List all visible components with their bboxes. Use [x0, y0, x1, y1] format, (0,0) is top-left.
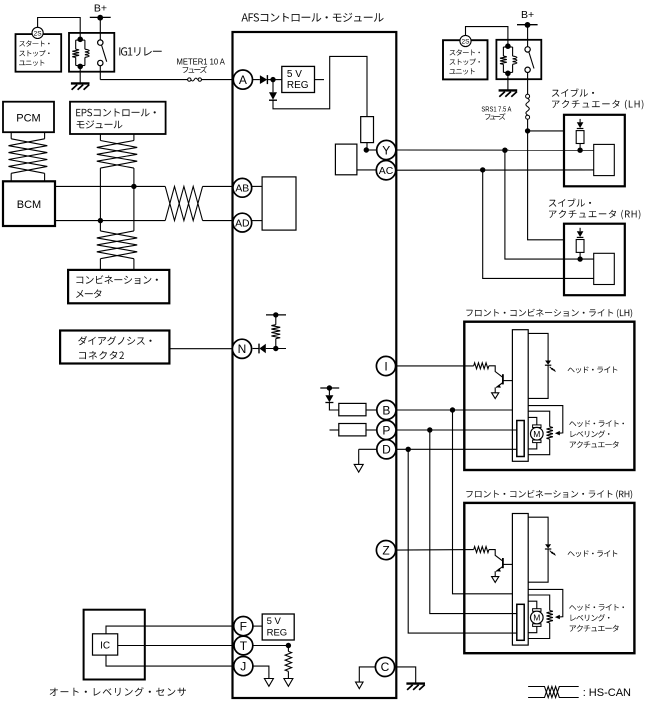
svg-text:2S: 2S [462, 38, 471, 45]
resistor in swivel (LH) [576, 131, 584, 144]
power tick at N pull-up [273, 312, 278, 317]
twisted pair PCM-BCM [10, 132, 12, 139]
diode at N [253, 348, 259, 350]
wire diode to B resistor [329, 403, 338, 411]
label start-stop unit (left) [19, 40, 49, 46]
label auto leveling sensor [50, 687, 186, 696]
connector 2S (left) [32, 27, 43, 38]
start-stop unit (left) box [16, 34, 62, 72]
wire AC to swivel LH [396, 169, 594, 171]
wire motor top to strip (RH) [528, 601, 537, 609]
relay IG1 coil [76, 39, 85, 41]
AFS control module U1 box [233, 32, 397, 698]
wire sensor to J [106, 655, 236, 666]
wire P resistor to P [366, 429, 377, 431]
wire EPS pair vertical left [99, 168, 101, 231]
wire zener loop to resistor [273, 56, 367, 116]
terminal J [234, 657, 253, 676]
wire sensor to F [106, 626, 236, 634]
relay 2 switch blade [529, 52, 534, 69]
svg-text:SRS1 7.5 A: SRS1 7.5 A [481, 107, 511, 114]
zener diode down from node [272, 82, 274, 92]
relay 2 contact upper [525, 47, 530, 52]
svg-text:F: F [240, 619, 247, 633]
wire resistor top to strip (RH) [528, 595, 550, 611]
junction node at Y [364, 147, 369, 152]
wire sensor to T [118, 645, 236, 647]
BCM box [3, 181, 55, 226]
junction node at T [286, 643, 291, 648]
label front combination light (LH) [466, 309, 632, 318]
PCM box [3, 102, 54, 133]
label headlight leveling actuator (LH) [569, 420, 624, 427]
wire F to 5V REG [253, 625, 262, 627]
wire D to LH light [396, 448, 517, 450]
base resistor (RH) [474, 547, 489, 553]
headlight connector strip (LH) [512, 330, 528, 462]
relay IG1 contact lower [98, 60, 103, 65]
relay 2 coil node top [505, 43, 511, 49]
internal box near Y [335, 144, 357, 175]
diode after A [260, 75, 267, 84]
wiper arm wire (LH) [528, 406, 563, 434]
junction node on B wire [450, 407, 455, 412]
wire P branch to RH light [430, 430, 517, 614]
label swivel actuator LH [552, 88, 594, 96]
terminal P [377, 420, 396, 439]
terminal B [377, 400, 396, 419]
wire base resistor to transistor (RH) [489, 550, 503, 562]
wire D branch to RH light [408, 449, 517, 633]
wire P to LH light [396, 429, 517, 431]
label combination meter [76, 275, 157, 284]
wire BCM to AD (CAN low) [55, 220, 165, 222]
terminal AB [233, 178, 252, 197]
junction node in swivel (RH) [577, 256, 582, 261]
transistor emitter (LH) [496, 383, 503, 388]
label headlight leveling actuator (RH) [569, 604, 624, 611]
ground triangle at emitter (LH) [492, 393, 499, 399]
swivel actuator (RH) box [564, 224, 625, 296]
resistor at B (box) [339, 403, 366, 415]
transistor Q (LH) [502, 374, 504, 384]
wire B+ branch to swivel RH [528, 131, 564, 240]
junction node on P wire [427, 427, 432, 432]
ground triangle at J [264, 679, 273, 687]
label swivel actuator RH [549, 198, 591, 206]
svg-text:IC: IC [100, 641, 110, 652]
label start-stop unit (right) [450, 49, 480, 55]
wire T internal [253, 645, 289, 647]
wire B+ to swivel LH [528, 130, 564, 132]
front combination light (RH) box [464, 503, 634, 653]
junction node on Y wire [502, 148, 507, 153]
relay IG1 contact upper [98, 40, 103, 45]
wire C to ground left [359, 667, 376, 682]
diode in swivel (RH) [579, 228, 581, 231]
junction node after diode [270, 77, 275, 82]
svg-text:AD: AD [235, 218, 249, 229]
wire A to diode [252, 79, 260, 81]
headlight connector strip (RH) [512, 514, 528, 646]
terminal D [377, 440, 396, 459]
wire internal box to AC [357, 169, 377, 171]
connector 2S (right) [460, 35, 471, 46]
wire AD to internal box [252, 220, 262, 222]
chassis ground at C [406, 682, 425, 684]
wire fuse SRS1 to node [527, 119, 529, 131]
wire resistor top to strip (LH) [528, 411, 550, 427]
relay IG1 switch blade [102, 45, 107, 62]
svg-text:D: D [382, 443, 391, 457]
wire 2S to relay coil [38, 18, 81, 40]
junction node on AC wire [480, 167, 485, 172]
diagnosis connector 2 box [60, 331, 169, 364]
wire resistor bottom to strip (LH) [528, 439, 550, 455]
svg-text:I: I [384, 359, 387, 373]
label AFS control module [241, 13, 383, 22]
headlight lamp circuit (RH) [528, 517, 548, 544]
wire relay 2 to fuse SRS1 [527, 72, 529, 94]
label headlight (RH) [568, 550, 618, 557]
relay IG1 coil node top [77, 37, 83, 43]
EPS control module box [70, 102, 166, 134]
wire AC branch to swivel RH [483, 170, 594, 279]
wire Z to RH base resistor [396, 549, 474, 552]
ground triangle at T [284, 679, 293, 687]
power tick at B [320, 387, 339, 389]
svg-text:METER1 10 A: METER1 10 A [177, 58, 226, 67]
relay 2 contact lower [525, 67, 530, 72]
relay 2 box [496, 40, 541, 79]
wire B resistor to B [366, 409, 377, 411]
fuse METER1 10A [188, 78, 191, 81]
wire B+ to relay 2 contact [527, 25, 529, 47]
label headlight (LH) [568, 366, 618, 373]
wire B to LH light [396, 409, 512, 411]
svg-text:Z: Z [382, 543, 389, 557]
junction node below SRS1 fuse [525, 128, 530, 133]
fuse SRS1 7.5A [526, 94, 530, 98]
ground below relay 2 [507, 74, 509, 91]
ground triangle at D [354, 464, 363, 472]
label diagnosis connector 2 [78, 336, 152, 345]
junction node on D wire [406, 447, 411, 452]
wire EPS pair vertical right [133, 168, 135, 231]
svg-text:5 V: 5 V [287, 69, 302, 80]
terminal AD [233, 213, 252, 232]
ground below relay IG1 [79, 67, 81, 83]
twisted pair to combination meter [97, 231, 137, 259]
wire C to chassis ground [395, 667, 416, 684]
wire motor top to strip (LH) [528, 417, 537, 425]
wire B branch to RH light [453, 410, 513, 594]
resistor at P (box) [339, 424, 366, 436]
svg-text:M: M [533, 613, 540, 623]
wire diagnosis connector to N [169, 348, 234, 350]
internal box at AB-AD [262, 177, 296, 230]
motor box in swivel (RH) [594, 253, 615, 284]
svg-text:B+: B+ [94, 3, 107, 15]
terminal N [232, 339, 251, 358]
terminal I [376, 356, 395, 375]
svg-text:5 V: 5 V [267, 616, 282, 627]
motor box in swivel (LH) [594, 144, 615, 175]
wire B+ to relay contact [99, 18, 101, 40]
wire base resistor to transistor (LH) [489, 366, 503, 378]
5V regulator box (bottom) [262, 614, 294, 640]
IC box [93, 634, 118, 655]
svg-text:Y: Y [382, 143, 390, 157]
terminal C [375, 657, 394, 676]
wire Y to swivel LH [396, 149, 594, 151]
wire D to ground [359, 448, 377, 450]
terminal T [234, 636, 253, 655]
wire motor bottom to strip (RH) [528, 626, 537, 632]
wiper arm wire (RH) [528, 589, 563, 617]
svg-text:2S: 2S [34, 30, 43, 37]
junction node on AD wire [98, 218, 103, 223]
headlight leveling connector (LH) [517, 421, 524, 457]
auto leveling sensor box [84, 610, 145, 680]
ground triangle at emitter (RH) [492, 577, 499, 583]
resistor at T [287, 646, 289, 652]
transistor emitter (RH) [496, 566, 503, 571]
headlight leveling connector (RH) [517, 604, 524, 640]
wire R1 to Y [366, 143, 368, 150]
svg-text:J: J [240, 659, 246, 673]
relay IG1 box [69, 33, 114, 72]
wire fuse to terminal A [202, 79, 235, 81]
leveling feedback resistor (RH) [547, 611, 553, 623]
5V regulator box (top) [282, 66, 315, 92]
terminal Y [377, 140, 396, 159]
svg-text:B+: B+ [521, 9, 534, 21]
label IG1 relay [119, 47, 161, 56]
wire Y branch to swivel RH [505, 150, 594, 259]
ground triangle at C [356, 682, 364, 689]
terminal F [234, 617, 253, 636]
wire I to LH base resistor [396, 365, 474, 367]
svg-text:REG: REG [267, 627, 288, 638]
pull-up resistor at N [275, 339, 277, 349]
transistor Q (RH) [502, 558, 504, 568]
headlight lamp circuit (LH) [528, 333, 548, 360]
twisted pair EPS down [99, 134, 101, 141]
wire resistor to node (LH) [579, 144, 581, 151]
wire 5V REG output stub [315, 79, 325, 81]
diode in swivel (LH) [579, 119, 581, 122]
resistor in swivel (RH) [576, 240, 584, 253]
svg-text:: HS-CAN: : HS-CAN [583, 687, 631, 699]
combination meter box [68, 270, 169, 303]
twisted pair BCM to module [165, 186, 202, 220]
junction node at N [273, 346, 278, 351]
wire resistor to node (RH) [579, 252, 581, 259]
wire J to ground [253, 666, 269, 678]
svg-text:AB: AB [235, 184, 249, 195]
motor M (LH) [533, 425, 541, 428]
wire resistor bottom to strip (RH) [528, 623, 550, 639]
wire AB to internal box [252, 185, 262, 187]
svg-text:AC: AC [379, 166, 394, 177]
front combination light (LH) box [464, 322, 634, 470]
terminal A [233, 70, 252, 89]
terminal AC [376, 161, 395, 180]
start-stop unit (right) box [443, 40, 488, 79]
wire 2S to relay 2 coil [466, 27, 508, 47]
svg-text:P: P [382, 423, 390, 437]
relay 2 coil [503, 46, 512, 48]
svg-text:C: C [381, 660, 390, 674]
svg-text:A: A [239, 73, 247, 87]
base resistor (LH) [474, 363, 489, 369]
wire motor bottom to strip (LH) [528, 443, 537, 449]
svg-text:REG: REG [287, 80, 309, 91]
junction node in swivel (LH) [577, 148, 582, 153]
wire relay to fuse METER1 [99, 66, 101, 80]
wire diode to 5V REG [267, 79, 281, 81]
resistor R1 (internal) [361, 117, 374, 143]
motor M (RH) [533, 609, 541, 612]
relay 2 coil node bottom [505, 71, 511, 77]
svg-text:BCM: BCM [17, 199, 41, 211]
svg-text:M: M [533, 429, 540, 439]
diode at B [328, 388, 330, 395]
svg-text:PCM: PCM [16, 113, 40, 125]
svg-text:B: B [382, 403, 390, 417]
junction node on AB wire [131, 184, 136, 189]
wire BCM to AB (CAN high) [55, 185, 165, 187]
label front combination light (RH) [466, 490, 632, 499]
wire stub to P resistor [330, 429, 339, 431]
leveling feedback resistor (LH) [547, 427, 553, 439]
terminal Z [376, 541, 395, 560]
relay IG1 coil node bottom [77, 64, 83, 70]
label EPS control module [76, 109, 156, 117]
HS-CAN legend symbol [528, 687, 579, 698]
swivel actuator (LH) box [564, 115, 625, 187]
svg-text:T: T [240, 639, 248, 653]
svg-text:N: N [238, 342, 247, 356]
